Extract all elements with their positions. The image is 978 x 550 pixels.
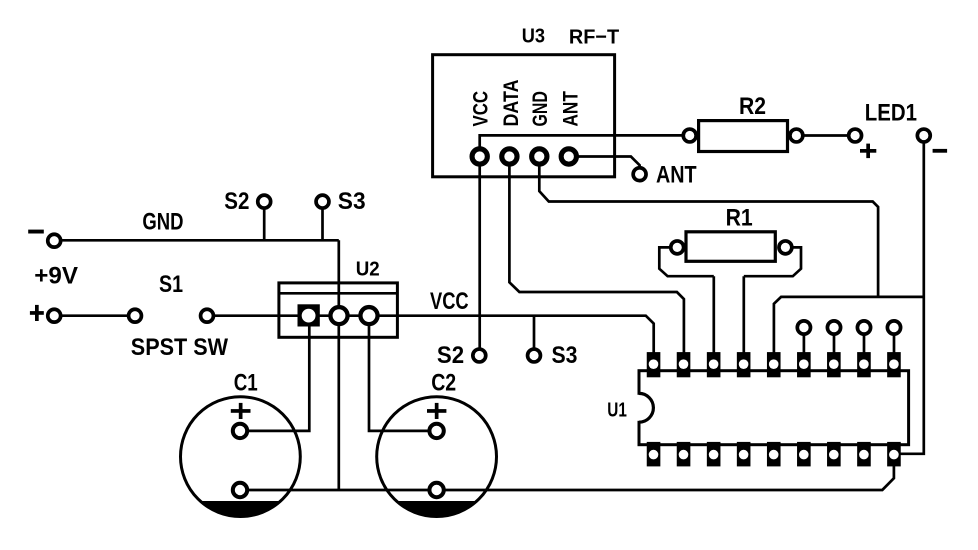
svg-text:R2: R2 <box>739 93 766 120</box>
svg-text:C1: C1 <box>234 369 258 396</box>
svg-text:R1: R1 <box>726 205 753 232</box>
svg-text:ANT: ANT <box>560 91 583 127</box>
svg-text:LED1: LED1 <box>865 100 917 127</box>
svg-text:U3: U3 <box>522 25 545 48</box>
svg-text:S1: S1 <box>159 271 183 298</box>
svg-text:S2: S2 <box>437 342 464 369</box>
svg-text:VCC: VCC <box>469 91 492 127</box>
svg-text:+9V: +9V <box>34 262 78 289</box>
svg-text:S3: S3 <box>338 188 366 215</box>
svg-text:C2: C2 <box>431 369 456 396</box>
svg-text:SPST SW: SPST SW <box>131 334 229 361</box>
svg-text:S2: S2 <box>224 188 249 215</box>
svg-text:U2: U2 <box>356 258 380 281</box>
svg-text:ANT: ANT <box>656 161 697 188</box>
svg-text:S3: S3 <box>552 342 578 369</box>
svg-text:U1: U1 <box>607 399 627 422</box>
svg-text:DATA: DATA <box>500 80 523 127</box>
svg-text:VCC: VCC <box>430 288 469 315</box>
svg-text:GND: GND <box>529 91 552 126</box>
svg-text:RF−T: RF−T <box>569 25 620 48</box>
svg-text:GND: GND <box>142 209 183 236</box>
